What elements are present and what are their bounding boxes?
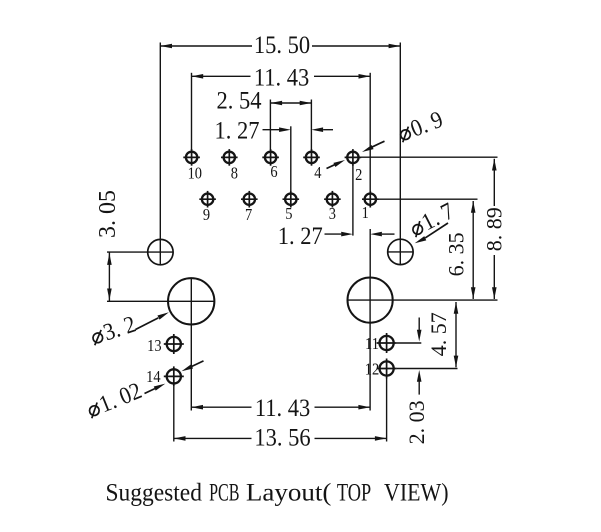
hole 3.2 right with crosshair <box>348 278 498 411</box>
svg-text:11. 43: 11. 43 <box>254 64 309 91</box>
svg-text:8: 8 <box>231 165 238 183</box>
svg-text:PCB: PCB <box>209 478 239 507</box>
hole 3.2 left with crosshair <box>168 278 214 410</box>
hole 1.7 right <box>388 239 413 264</box>
pin 14 <box>164 366 184 386</box>
svg-text:2: 2 <box>355 166 362 184</box>
extension line: 15.50 right, through right 1.7 hole <box>399 43 401 265</box>
extension line: pin 1 column below label to right 3.2 hole <box>369 229 371 278</box>
svg-text:13: 13 <box>147 337 162 355</box>
svg-text:4: 4 <box>314 164 321 182</box>
svg-text:6: 6 <box>270 163 277 181</box>
svg-text:1: 1 <box>362 204 369 222</box>
hole 1.7 left <box>148 239 173 264</box>
reference line: pin 12 to right <box>397 368 458 370</box>
pin 13 <box>164 334 184 354</box>
caption <box>106 477 449 506</box>
pin 8 <box>221 149 238 166</box>
svg-text:3. 2: 3. 2 <box>100 311 139 346</box>
reference line: pin 11 to right <box>397 342 422 344</box>
dimension 11.43 top <box>192 64 371 91</box>
svg-text:Suggested: Suggested <box>106 479 202 507</box>
extension line: pin 14 column down <box>173 386 175 441</box>
svg-text:9: 9 <box>203 206 210 224</box>
label diameter 3.2 <box>88 311 139 350</box>
extension line: 2.54 left to pin 6 <box>269 100 271 150</box>
extension line: 1.27 top, pin 5 column <box>290 126 292 191</box>
dimension 13.56 <box>174 424 387 451</box>
pin 6 <box>262 149 279 166</box>
pin 3 <box>324 191 341 208</box>
svg-text:0. 9: 0. 9 <box>407 106 447 142</box>
svg-text:8. 89: 8. 89 <box>482 207 507 251</box>
pin 9 <box>199 191 216 208</box>
pin 5 <box>283 191 300 208</box>
pin 11 <box>377 333 397 353</box>
pin 2 <box>345 149 362 166</box>
svg-text:3. 05: 3. 05 <box>95 190 121 238</box>
svg-text:TOP: TOP <box>337 477 371 506</box>
extension line: pin 12 column down <box>386 379 388 442</box>
svg-text:1. 02: 1. 02 <box>95 377 145 418</box>
pin 12 <box>377 359 397 379</box>
svg-text:1. 27: 1. 27 <box>215 117 260 144</box>
extension line: pin 2 column down <box>352 165 354 235</box>
reference line: pin row 1 to right <box>359 156 498 158</box>
svg-text:1. 27: 1. 27 <box>278 223 323 250</box>
dimension 4.57 (rotated) <box>426 302 459 367</box>
svg-text:5: 5 <box>285 205 292 223</box>
pin 7 <box>241 191 258 208</box>
reference line: left 3.2 hole crosshair horizontal / 3.05 bottom <box>107 300 214 302</box>
leader diameter 0.9 to pin 2 <box>327 141 385 168</box>
svg-text:2. 03: 2. 03 <box>404 400 429 444</box>
svg-text:3: 3 <box>329 205 336 223</box>
dimension 1.27 bottom (arrows outside) <box>278 223 395 250</box>
svg-text:Layout(: Layout( <box>246 478 332 506</box>
label diameter 1.02 <box>84 377 146 422</box>
dimension 2.54 <box>217 88 312 115</box>
pin 10 <box>183 149 200 166</box>
leader diameter 1.7 to right hole <box>414 223 448 245</box>
svg-text:11. 43: 11. 43 <box>255 395 310 422</box>
label diameter 0.9 <box>395 106 446 147</box>
dimension 2.03 (rotated, arrows outside) <box>404 318 429 445</box>
dimension 15.50 <box>160 32 400 59</box>
dimension 1.27 top (arrows outside) <box>215 117 333 144</box>
svg-text:11: 11 <box>365 335 379 353</box>
leader diameter 3.2 to left hole <box>136 310 170 329</box>
svg-text:4. 57: 4. 57 <box>426 312 451 356</box>
dimension 8.89 (rotated) <box>482 159 507 299</box>
leader diameter 1.02 to pin 14 <box>145 361 204 394</box>
pin 4 <box>303 149 320 166</box>
reference line: pin row 2 to right <box>377 198 478 200</box>
extension line: 11.43 top left to pin 10 <box>191 73 193 150</box>
extension line: 2.54 right / 1.27 right to pin 4 <box>310 100 312 150</box>
label diameter 1.7 <box>406 197 458 241</box>
svg-text:10: 10 <box>188 165 203 183</box>
extension line: 15.50 left, through left 1.7 hole <box>159 43 161 265</box>
svg-text:12: 12 <box>365 361 380 379</box>
svg-text:14: 14 <box>146 368 161 386</box>
svg-text:VIEW): VIEW) <box>384 479 449 507</box>
dimension 6.35 (rotated) <box>444 201 476 299</box>
pin 1 <box>362 191 379 208</box>
svg-text:7: 7 <box>245 206 252 224</box>
svg-text:2. 54: 2. 54 <box>217 88 262 115</box>
dimension 11.43 bottom <box>191 395 370 422</box>
reference line: left 1.7 hole crosshair horizontal / 3.05 top <box>107 251 173 253</box>
svg-text:15. 50: 15. 50 <box>254 32 310 59</box>
svg-text:6. 35: 6. 35 <box>444 232 469 276</box>
svg-text:13. 56: 13. 56 <box>254 424 310 451</box>
extension line: 11.43 top right to pin 1 <box>369 73 371 192</box>
dimension 3.05 (rotated) <box>95 190 121 301</box>
